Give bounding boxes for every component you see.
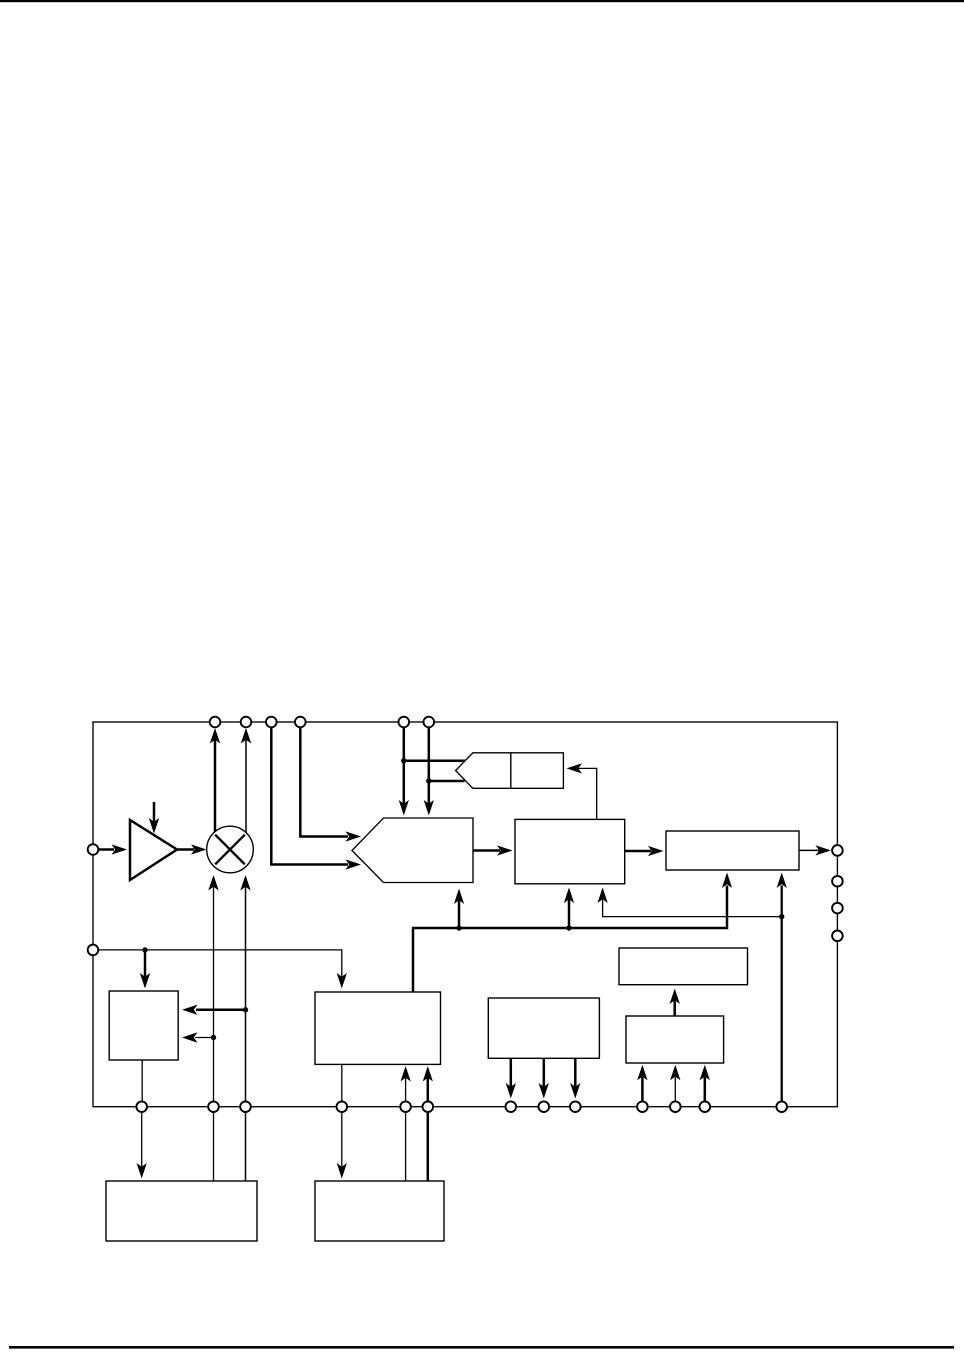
top pin T4 bbox=[295, 717, 306, 728]
bottom pin B12 bbox=[700, 1101, 711, 1112]
bottom pin B5 bbox=[400, 1101, 411, 1112]
wire driver output to right pin bbox=[799, 845, 831, 855]
wire vertical net B from bottom-left block to mixer bbox=[240, 875, 250, 1181]
reference block B8 bbox=[619, 948, 748, 985]
wire branch to sync block lower bbox=[429, 780, 465, 783]
logic block B6 bbox=[315, 992, 441, 1064]
bottom pin B9 bbox=[570, 1101, 581, 1112]
top pin T3 bbox=[266, 717, 277, 728]
wire top pin 5 to decoder top input bbox=[399, 727, 409, 816]
right pin R3 bbox=[832, 903, 843, 914]
junction dot net C bbox=[779, 914, 784, 919]
amplifier A1 bbox=[130, 820, 177, 880]
left pin L2 bbox=[88, 945, 99, 956]
junction dot net A bbox=[211, 1035, 216, 1040]
wire output 3 to bottom pin bbox=[570, 1058, 580, 1098]
bottom pin B4 bbox=[337, 1101, 348, 1112]
bottom pin B10 bbox=[637, 1101, 648, 1112]
driver block B4 bbox=[666, 831, 799, 870]
oscillator block B11 bbox=[315, 1181, 444, 1241]
wire logic block to bottom pin and lower block bbox=[337, 1064, 347, 1179]
wire top pin 3 to decoder lower input bbox=[271, 727, 361, 870]
bottom pin B2 bbox=[208, 1101, 219, 1112]
wire input to amplifier bbox=[93, 844, 127, 854]
decoder block B1 (pentagon) bbox=[352, 818, 473, 883]
arrowhead control bus into driver bottom bbox=[722, 873, 732, 889]
wire output 1 to bottom pin bbox=[506, 1058, 516, 1098]
bottom pin B1 bbox=[136, 1101, 147, 1112]
wire control bus from logic block bbox=[413, 886, 727, 993]
junction dot left net bbox=[142, 947, 147, 952]
processor block B3 bbox=[515, 819, 625, 883]
top pin T1 bbox=[210, 717, 221, 728]
wire vertical net A from bottom-left block to mixer bbox=[208, 875, 218, 1181]
wire bottom pin up into logic block (thick) bbox=[423, 1066, 433, 1181]
junction dot control bus at processor branch bbox=[566, 925, 571, 930]
bottom pin B11 bbox=[670, 1101, 681, 1112]
wire left net from pin to logic block bbox=[93, 950, 347, 989]
right pin R4 bbox=[832, 931, 843, 942]
IC boundary frame bbox=[93, 722, 837, 1107]
footer horizontal rule bbox=[9, 1346, 954, 1349]
junction dot control bus at decoder branch bbox=[456, 925, 461, 930]
junction dot on pin-5 wire bbox=[401, 758, 406, 763]
top pin T5 bbox=[399, 717, 410, 728]
output block B7 bbox=[488, 998, 599, 1058]
wire processor output to driver bbox=[625, 846, 664, 856]
wire bottom pin up into logic block (thin) bbox=[401, 1066, 411, 1181]
wire mixer output to top pin 1 (thick) bbox=[210, 728, 220, 832]
wire top pin 6 to decoder top input bbox=[424, 727, 434, 816]
junction dot net B bbox=[243, 1007, 248, 1012]
bottom pin B8 bbox=[539, 1101, 550, 1112]
bottom pin B13 bbox=[776, 1101, 787, 1112]
wire mixer output to top pin 2 bbox=[241, 728, 251, 833]
right pin R2 bbox=[832, 876, 843, 887]
wire bottom pin into regulator 1 bbox=[637, 1065, 647, 1107]
wire regulator to top block bbox=[670, 989, 680, 1017]
wire register block to bottom pin and serial block bbox=[137, 1060, 147, 1179]
wire branch arrow into register block top bbox=[140, 950, 150, 989]
wire control bus branch into processor bottom bbox=[564, 888, 574, 929]
register block B5 bbox=[109, 991, 178, 1060]
page top border bar bbox=[0, 0, 964, 2]
bottom pin B7 bbox=[506, 1101, 517, 1112]
serial interface block B10 bbox=[106, 1181, 257, 1241]
wire right vertical from bottom pin to driver bottom bbox=[777, 873, 787, 1107]
wire branch to sync block upper bbox=[404, 759, 467, 762]
wire top pin 4 to decoder upper input bbox=[300, 727, 361, 842]
wire output 2 to bottom pin bbox=[539, 1058, 549, 1098]
wire bottom pin into regulator 3 bbox=[700, 1065, 710, 1107]
wire amplifier output to mixer bbox=[177, 844, 207, 854]
right pin R1 bbox=[832, 845, 843, 856]
regulator block B9 bbox=[626, 1016, 724, 1063]
bottom pin B3 bbox=[240, 1101, 251, 1112]
wire net A branch arrow into register block bbox=[182, 1032, 214, 1042]
wire net C from right vertical to processor bottom bbox=[598, 888, 782, 917]
wire bottom pin into regulator 2 bbox=[670, 1065, 680, 1107]
mixer X1 bbox=[207, 826, 254, 873]
top pin T2 bbox=[241, 717, 252, 728]
wire gain control into amplifier bbox=[149, 802, 159, 834]
bottom pin B6 bbox=[423, 1101, 434, 1112]
left pin L1 (signal input) bbox=[88, 844, 99, 855]
wire control bus branch into decoder bottom bbox=[454, 889, 464, 929]
wire net B branch thick arrow into register block bbox=[182, 1005, 246, 1015]
sync separator block B2 (pointed register) bbox=[456, 753, 564, 789]
wire decoder output to processor bbox=[473, 845, 513, 855]
wire processor to sync block feedback bbox=[567, 763, 597, 819]
junction dot on pin-6 wire bbox=[426, 778, 431, 783]
top pin T6 bbox=[424, 717, 435, 728]
